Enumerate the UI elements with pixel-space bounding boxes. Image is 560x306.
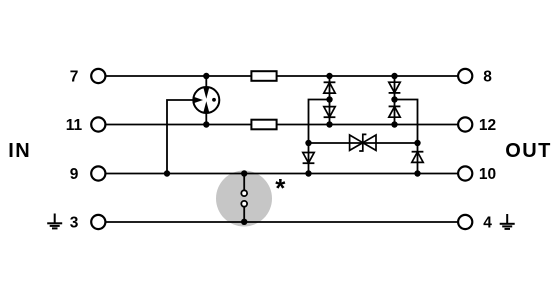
svg-text:8: 8	[483, 69, 492, 86]
ground symbol right (at terminal 4)	[500, 214, 515, 229]
junction dot line1 / D3	[391, 73, 397, 79]
svg-text:4: 4	[483, 215, 492, 232]
diode D5 (left lower, pointing down)	[303, 143, 315, 174]
wire line 3-4 (bottom line)	[105, 221, 458, 223]
gas discharge tube (3-electrode arrester)	[193, 76, 219, 125]
svg-text:7: 7	[70, 69, 79, 86]
junction dot line3 / D5	[305, 170, 311, 176]
svg-text:10: 10	[479, 166, 496, 183]
junction dot line3 / GDT ground	[164, 170, 170, 176]
svg-text:OUT: OUT	[505, 140, 551, 162]
terminal 9	[70, 166, 106, 183]
diode D6 (right lower, pointing up)	[412, 143, 424, 174]
svg-text:12: 12	[479, 117, 496, 134]
junction dot right diode midpoint	[391, 96, 397, 102]
junction dot line3 / D6	[414, 170, 420, 176]
svg-text:*: *	[275, 173, 286, 203]
terminal 12	[458, 117, 496, 134]
terminal 10	[458, 166, 496, 183]
terminal 11	[66, 117, 106, 134]
junction dot line1 / GDT	[203, 73, 209, 79]
svg-text:IN: IN	[8, 140, 31, 162]
junction dot rail right	[414, 140, 420, 146]
TVS bidirectional suppressor	[350, 134, 376, 151]
svg-text:3: 3	[70, 215, 79, 232]
diode D2 (left column bottom, pointing down)	[324, 107, 336, 118]
wire left midpoint to TVS rail	[309, 100, 330, 144]
wire line 11-12	[105, 124, 458, 126]
terminal 8	[458, 69, 492, 86]
wire line 9-10	[105, 173, 458, 175]
wire right midpoint to TVS rail	[395, 100, 418, 144]
diode D4 (right column bottom, pointing up)	[389, 106, 401, 117]
resistor R1 (top line)	[251, 71, 276, 81]
terminal 4	[458, 215, 492, 232]
junction dot left diode midpoint	[326, 96, 332, 102]
junction dot line1 / D1	[326, 73, 332, 79]
wire right diode column	[394, 76, 396, 125]
terminal 7	[70, 69, 106, 86]
junction dot line2 / D2	[326, 121, 332, 127]
wire GDT left electrode to line 9	[167, 100, 193, 174]
wire TVS rail	[309, 142, 418, 144]
resistor R2 (line 11-12)	[251, 120, 276, 130]
junction dot line2 / GDT	[203, 121, 209, 127]
isolating spark gap (disconnection device)	[241, 174, 247, 223]
junction dot line2 / D4	[391, 121, 397, 127]
isolating spark gap highlight circle (gray)	[216, 171, 272, 227]
diode D1 (left column top, pointing up)	[324, 82, 336, 93]
junction dot rail left	[305, 140, 311, 146]
wire line 7-8 (top line)	[105, 75, 458, 77]
terminal 3	[70, 215, 106, 232]
diode D3 (right column top, pointing down)	[389, 82, 401, 93]
junction dot line3 / spark gap	[241, 170, 247, 176]
svg-text:11: 11	[66, 117, 83, 134]
svg-text:9: 9	[70, 166, 79, 183]
wire left diode column	[329, 76, 331, 125]
ground symbol left (at terminal 3)	[47, 214, 62, 229]
junction dot line4 / spark gap	[241, 219, 247, 225]
